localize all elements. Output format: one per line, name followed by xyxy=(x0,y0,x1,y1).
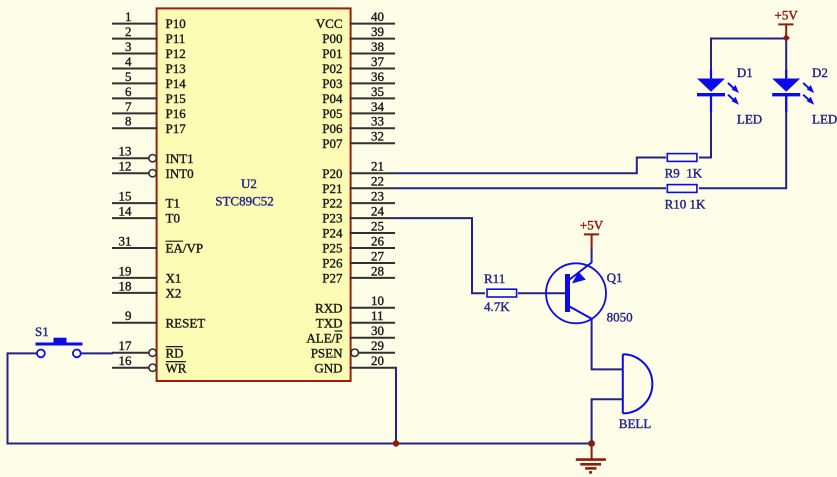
pin 30 ALE/P (right) xyxy=(306,323,395,345)
svg-text:P03: P03 xyxy=(322,76,342,91)
svg-text:P05: P05 xyxy=(322,106,342,121)
svg-text:18: 18 xyxy=(119,278,132,293)
svg-text:D1: D1 xyxy=(737,65,753,80)
svg-text:P01: P01 xyxy=(322,46,342,61)
svg-text:TXD: TXD xyxy=(316,315,343,330)
svg-text:+5V: +5V xyxy=(580,218,604,233)
svg-text:P13: P13 xyxy=(166,61,186,76)
svg-text:P27: P27 xyxy=(322,271,343,286)
svg-text:STC89C52: STC89C52 xyxy=(215,194,274,209)
wire P23 to R11 xyxy=(395,218,485,293)
svg-text:38: 38 xyxy=(371,39,384,54)
svg-text:15: 15 xyxy=(119,189,132,204)
pin 7 P16 (left) xyxy=(112,99,186,121)
pin 19 X1 (left) xyxy=(112,263,181,285)
resistor R10 xyxy=(667,185,697,193)
svg-text:P23: P23 xyxy=(322,211,342,226)
svg-text:39: 39 xyxy=(371,24,384,39)
pin 12 INT0 (left) xyxy=(112,159,194,181)
pin 16 WR (left) xyxy=(112,353,187,375)
wire P20 to R9 xyxy=(395,158,666,174)
svg-text:P15: P15 xyxy=(166,91,186,106)
wire Q1 collector to BELL top xyxy=(592,319,622,370)
svg-text:WR: WR xyxy=(166,360,187,375)
junction bell / ground xyxy=(588,440,595,447)
svg-text:12: 12 xyxy=(119,159,132,174)
pin 24 P23 (right) xyxy=(322,204,395,226)
svg-text:P11: P11 xyxy=(166,31,186,46)
pin 4 P13 (left) xyxy=(112,54,186,76)
svg-text:28: 28 xyxy=(371,263,384,278)
svg-text:11: 11 xyxy=(371,308,384,323)
svg-text:R10 1K: R10 1K xyxy=(665,197,706,212)
svg-text:T1: T1 xyxy=(166,196,180,211)
svg-text:RESET: RESET xyxy=(166,315,206,330)
svg-text:19: 19 xyxy=(119,263,132,278)
pin 31 EA/VP (left) xyxy=(112,233,203,255)
svg-text:X1: X1 xyxy=(166,271,182,286)
wire R10 to D2 cathode xyxy=(699,96,786,188)
svg-text:P21: P21 xyxy=(322,181,342,196)
wire S1 right to pin 17 xyxy=(81,352,113,354)
svg-text:Q1: Q1 xyxy=(607,270,623,285)
svg-text:GND: GND xyxy=(314,360,342,375)
pin 11 TXD (right) xyxy=(316,308,395,330)
+5V power symbol (top right) xyxy=(775,8,799,38)
junction GND-pin / bottom rail xyxy=(393,440,399,446)
svg-text:R9 1K: R9 1K xyxy=(665,166,703,181)
svg-text:8050: 8050 xyxy=(607,310,633,325)
svg-text:16: 16 xyxy=(119,353,133,368)
svg-text:9: 9 xyxy=(125,308,132,323)
svg-text:23: 23 xyxy=(371,189,384,204)
svg-text:INT1: INT1 xyxy=(166,151,194,166)
pin 25 P24 (right) xyxy=(322,218,395,240)
pin 36 P03 (right) xyxy=(322,69,395,91)
svg-text:32: 32 xyxy=(371,129,384,144)
pin 22 P21 (right) xyxy=(322,174,395,196)
svg-text:P07: P07 xyxy=(322,136,343,151)
svg-text:P16: P16 xyxy=(166,106,187,121)
pin 35 P04 (right) xyxy=(322,84,395,106)
svg-text:VCC: VCC xyxy=(316,16,343,31)
pin 15 T1 (left) xyxy=(112,189,180,211)
svg-text:14: 14 xyxy=(119,204,133,219)
pin 28 P27 (right) xyxy=(322,263,395,285)
svg-text:LED: LED xyxy=(737,112,762,127)
svg-text:8: 8 xyxy=(125,114,132,129)
ground symbol xyxy=(576,444,606,473)
svg-text:33: 33 xyxy=(371,114,384,129)
svg-text:3: 3 xyxy=(125,39,132,54)
pin 37 P02 (right) xyxy=(322,54,395,76)
transistor Q1 xyxy=(546,263,606,324)
pin 13 INT1 (left) xyxy=(112,144,194,166)
buzzer BELL xyxy=(623,354,653,413)
LED D1 xyxy=(697,70,739,112)
svg-text:P22: P22 xyxy=(322,196,342,211)
switch S1 xyxy=(36,338,83,358)
svg-text:13: 13 xyxy=(119,144,132,159)
pin 10 RXD (right) xyxy=(315,293,395,315)
pin 34 P05 (right) xyxy=(322,99,395,121)
pin 17 RD (left) xyxy=(112,338,184,360)
svg-text:30: 30 xyxy=(371,323,384,338)
wire S1 left to bottom rail xyxy=(8,353,592,443)
svg-text:PSEN: PSEN xyxy=(311,345,343,360)
svg-text:P04: P04 xyxy=(322,91,343,106)
pin 2 P11 (left) xyxy=(112,24,185,46)
svg-text:BELL: BELL xyxy=(619,416,652,431)
svg-text:6: 6 xyxy=(125,84,132,99)
svg-text:26: 26 xyxy=(371,233,385,248)
pin 3 P12 (left) xyxy=(112,39,186,61)
pin 23 P22 (right) xyxy=(322,189,395,211)
wire GND pin to bottom rail xyxy=(395,368,396,444)
pin 29 PSEN (right) xyxy=(311,338,395,360)
svg-text:21: 21 xyxy=(371,159,384,174)
svg-text:T0: T0 xyxy=(166,211,180,226)
svg-text:S1: S1 xyxy=(35,324,49,339)
pin 26 P25 (right) xyxy=(322,233,395,255)
svg-text:31: 31 xyxy=(119,233,132,248)
wire +5V to Q1 emitter xyxy=(591,248,593,263)
wire P21 to R10 xyxy=(395,187,666,189)
svg-text:RD: RD xyxy=(166,345,184,360)
svg-text:EA/VP: EA/VP xyxy=(166,241,204,256)
svg-text:P24: P24 xyxy=(322,226,343,241)
svg-text:27: 27 xyxy=(371,248,385,263)
svg-text:R11: R11 xyxy=(484,271,505,286)
svg-text:P25: P25 xyxy=(322,241,342,256)
wire R9 to D1 cathode xyxy=(699,96,711,158)
pin 1 P10 (left) xyxy=(112,9,186,31)
svg-text:ALE/P: ALE/P xyxy=(306,330,342,345)
svg-text:U2: U2 xyxy=(241,176,257,191)
pin 21 P20 (right) xyxy=(322,159,395,181)
wire +5V rail to LEDs xyxy=(711,39,786,79)
pin 33 P06 (right) xyxy=(322,114,395,136)
wire BELL bottom to ground node xyxy=(592,399,622,443)
svg-text:2: 2 xyxy=(125,24,132,39)
pin 6 P15 (left) xyxy=(112,84,186,106)
svg-text:5: 5 xyxy=(125,69,132,84)
resistor R9 xyxy=(667,154,697,162)
svg-text:P12: P12 xyxy=(166,46,186,61)
svg-text:LED: LED xyxy=(812,112,837,127)
svg-text:D2: D2 xyxy=(812,65,828,80)
svg-text:P26: P26 xyxy=(322,256,343,271)
wire R11 to Q1 base xyxy=(518,292,565,294)
pin 14 T0 (left) xyxy=(112,204,180,226)
svg-text:7: 7 xyxy=(125,99,132,114)
pin 18 X2 (left) xyxy=(112,278,181,300)
pin 20 GND (right) xyxy=(314,353,395,375)
svg-text:29: 29 xyxy=(371,338,384,353)
svg-text:24: 24 xyxy=(371,204,385,219)
svg-text:1: 1 xyxy=(125,9,132,24)
pin 8 P17 (left) xyxy=(112,114,186,136)
pin 32 P07 (right) xyxy=(322,129,395,151)
svg-text:X2: X2 xyxy=(166,286,182,301)
svg-text:40: 40 xyxy=(371,9,384,24)
IC U2 body xyxy=(157,8,351,381)
svg-text:INT0: INT0 xyxy=(166,166,194,181)
svg-text:4: 4 xyxy=(125,54,132,69)
pin 40 VCC (right) xyxy=(316,9,395,31)
svg-text:17: 17 xyxy=(119,338,133,353)
svg-text:P14: P14 xyxy=(166,76,187,91)
svg-text:RXD: RXD xyxy=(315,300,342,315)
svg-text:25: 25 xyxy=(371,218,384,233)
+5V power symbol (Q1 emitter) xyxy=(580,218,604,249)
svg-text:P00: P00 xyxy=(322,31,342,46)
svg-text:35: 35 xyxy=(371,84,384,99)
svg-text:P20: P20 xyxy=(322,166,342,181)
svg-text:P10: P10 xyxy=(166,16,186,31)
svg-text:22: 22 xyxy=(371,174,384,189)
resistor R11 xyxy=(487,289,517,297)
pin 38 P01 (right) xyxy=(322,39,395,61)
LED D2 xyxy=(772,70,814,112)
pin 27 P26 (right) xyxy=(322,248,395,270)
pin 9 RESET (left) xyxy=(112,308,205,330)
svg-text:34: 34 xyxy=(371,99,385,114)
svg-text:P02: P02 xyxy=(322,61,342,76)
svg-text:36: 36 xyxy=(371,69,385,84)
svg-text:+5V: +5V xyxy=(775,8,799,23)
pin 5 P14 (left) xyxy=(112,69,186,91)
svg-text:20: 20 xyxy=(371,353,384,368)
svg-text:P06: P06 xyxy=(322,121,343,136)
pin 39 P00 (right) xyxy=(322,24,395,46)
svg-text:4.7K: 4.7K xyxy=(484,299,510,314)
svg-text:P17: P17 xyxy=(166,121,187,136)
svg-text:10: 10 xyxy=(371,293,384,308)
junction at +5V LED rail xyxy=(783,34,790,41)
svg-text:37: 37 xyxy=(371,54,385,69)
